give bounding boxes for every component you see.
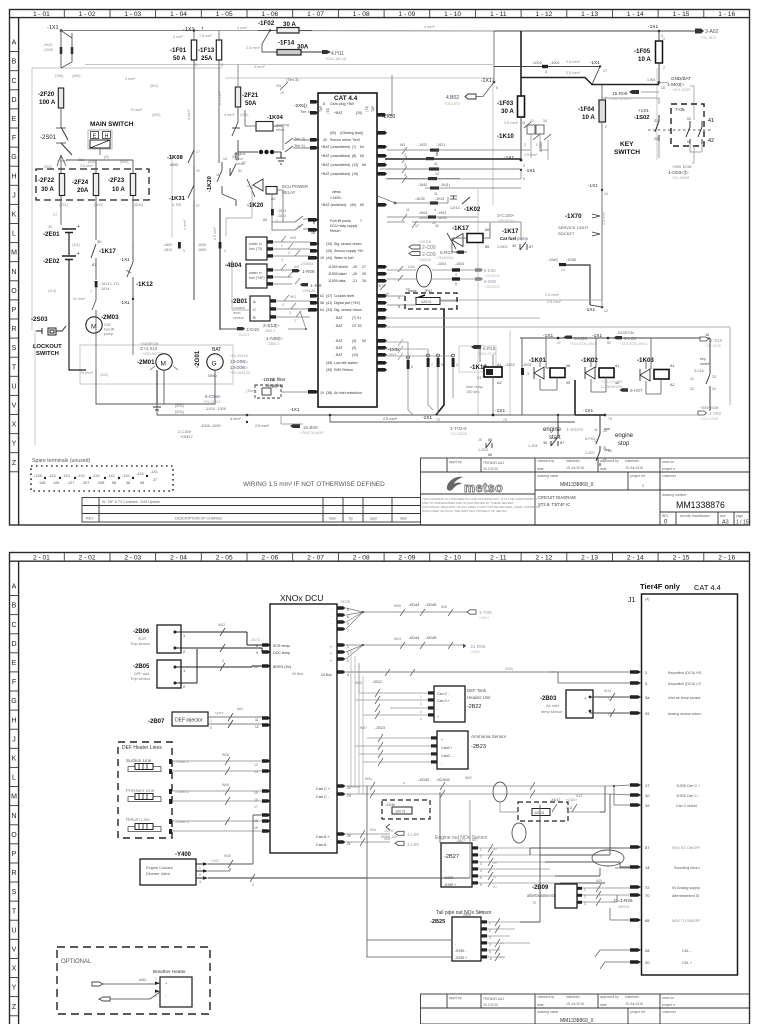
- svg-text:11: 11: [255, 718, 259, 722]
- svg-text:4: 4: [347, 673, 349, 677]
- svg-text:project ref: project ref: [630, 1010, 645, 1014]
- svg-text:27: 27: [362, 265, 366, 269]
- svg-text:CAT: CAT: [104, 323, 112, 327]
- svg-text:-1F04: -1F04: [578, 106, 595, 113]
- flag 4.H11: [322, 50, 331, 54]
- fuse -1F05 10A: [634, 24, 665, 82]
- svg-text:MM1338876: MM1338876: [676, 500, 725, 510]
- svg-text:13-G06▷: 13-G06▷: [230, 359, 249, 364]
- svg-text:stop: stop: [618, 441, 630, 447]
- svg-text:-2B01: -2B01: [231, 299, 248, 305]
- svg-text:Analog sensor return: Analog sensor return: [668, 712, 701, 716]
- svg-text:2 - 02: 2 - 02: [79, 555, 96, 562]
- ECU pin rows text: [320, 102, 366, 395]
- svg-text:A: A: [253, 299, 256, 304]
- svg-text:-2X88.B4: -2X88.B4: [300, 262, 314, 266]
- row to 1-Y05: [363, 611, 470, 613]
- svg-text:-2B23: -2B23: [375, 726, 385, 730]
- svg-text:checked by: checked by: [537, 459, 554, 463]
- svg-text:Header Unit: Header Unit: [467, 695, 491, 700]
- svg-text:J1939 shield: J1939 shield: [328, 265, 348, 269]
- svg-text:-XD73: -XD73: [250, 638, 260, 642]
- svg-text:H: H: [11, 717, 16, 724]
- svg-text:Water in fuel: Water in fuel: [334, 256, 354, 260]
- svg-text:1: 1: [480, 848, 482, 852]
- svg-text:7-05: 7-05: [675, 107, 685, 113]
- svg-text:(500): (500): [94, 203, 104, 207]
- svg-text:Can A -: Can A -: [316, 843, 329, 847]
- svg-text:aftertreatment1: aftertreatment1: [527, 893, 556, 898]
- svg-text:M: M: [161, 361, 166, 368]
- svg-text:5V Analog supply: 5V Analog supply: [672, 886, 700, 890]
- svg-text:Dig. sensor return: Dig. sensor return: [334, 308, 362, 312]
- ECU block CAT 4.4: [318, 93, 377, 407]
- svg-text:2.5 mm²: 2.5 mm²: [545, 293, 560, 297]
- svg-text:Can C -: Can C -: [316, 795, 330, 799]
- svg-text:2: 2: [288, 251, 290, 255]
- svg-text:W04: W04: [394, 637, 401, 641]
- svg-text:date: date: [400, 517, 407, 521]
- svg-text:CAT 4.4: CAT 4.4: [694, 583, 721, 592]
- svg-text:-2B23: -2B23: [471, 744, 486, 750]
- -4B04 pins and wires: [267, 236, 322, 293]
- svg-text:21: 21: [603, 446, 607, 450]
- battery -2E01: [43, 224, 80, 255]
- svg-text:2: 2: [252, 883, 254, 887]
- svg-text:1-L09: 1-L09: [407, 832, 419, 837]
- svg-text:(9): (9): [352, 346, 356, 350]
- svg-text:-1813: -1813: [100, 282, 109, 286]
- svg-text:-2X5(): -2X5(): [294, 103, 307, 108]
- svg-text:V1: V1: [477, 376, 481, 380]
- junction 1W4 y82: [521, 78, 665, 91]
- svg-text:05: 05: [566, 381, 570, 385]
- svg-text:J1939 +: J1939 +: [444, 883, 456, 887]
- svg-text:+BAT (unswitched): +BAT (unswitched): [321, 145, 350, 149]
- svg-text:approved by: approved by: [600, 995, 619, 999]
- flag 15.R09: [608, 90, 659, 101]
- svg-text:-1814: -1814: [100, 287, 109, 291]
- service socket -1X70: [558, 183, 608, 305]
- svg-text:34: 34: [543, 119, 547, 123]
- svg-text:water in: water in: [249, 271, 262, 275]
- svg-text:(Tier 3): (Tier 3): [286, 77, 299, 82]
- svg-text:7: 7: [360, 219, 362, 223]
- svg-text:2-C10⊳: 2-C10⊳: [178, 430, 192, 434]
- svg-text:3a: 3a: [645, 695, 650, 700]
- svg-text:-1K03: -1K03: [437, 216, 447, 220]
- svg-text:W05: W05: [355, 681, 362, 685]
- shield oval 2: [512, 823, 526, 843]
- svg-text:14: 14: [223, 157, 227, 161]
- svg-text:1-M02: 1-M02: [497, 245, 508, 249]
- svg-text:E: E: [93, 134, 97, 140]
- svg-text:2 - 09: 2 - 09: [398, 555, 415, 562]
- svg-text:-: -: [331, 621, 332, 625]
- svg-text:-1X70: -1X70: [565, 213, 582, 220]
- svg-text:-1K01: -1K01: [529, 357, 546, 364]
- svg-text:+: +: [330, 659, 332, 663]
- wire 4mm2 rail: [254, 25, 435, 69]
- svg-text:-1001: -1001: [550, 61, 560, 65]
- svg-text:ST2.8, T3/T4F IC: ST2.8, T3/T4F IC: [538, 502, 570, 507]
- svg-text:11: 11: [406, 208, 410, 212]
- svg-text:4.B02: 4.B02: [446, 95, 459, 101]
- svg-text:approved by: approved by: [600, 459, 619, 463]
- svg-text:temp sensor: temp sensor: [541, 709, 563, 714]
- terminal -1940 -1938: [547, 258, 608, 313]
- 120ohm resistor right: [500, 794, 600, 821]
- lockout switch -2S03: [31, 316, 66, 357]
- svg-text:38: 38: [126, 481, 130, 485]
- svg-text:25: 25: [362, 272, 366, 276]
- svg-text:Can C -: Can C -: [437, 692, 450, 696]
- page 2 letter column line: [18, 561, 20, 1024]
- svg-text:-1K12: -1K12: [136, 281, 153, 288]
- svg-text:4: 4: [434, 208, 436, 212]
- svg-text:1: 1: [183, 634, 185, 638]
- wires down from rows: [436, 150, 438, 156]
- svg-text:21: 21: [654, 119, 658, 123]
- svg-text:DEF Tank: DEF Tank: [467, 688, 487, 693]
- svg-text:2.5 mm²: 2.5 mm²: [524, 153, 538, 157]
- svg-text:9: 9: [523, 177, 525, 181]
- svg-text:N: N: [11, 813, 16, 820]
- svg-text:72: 72: [645, 885, 650, 890]
- svg-text:Tmp sensor: Tmp sensor: [130, 677, 151, 681]
- svg-text:W0x: W0x: [365, 777, 372, 781]
- valve -Y400: [140, 815, 470, 887]
- svg-text:W/8: W/8: [290, 236, 296, 240]
- svg-text:1 - 02: 1 - 02: [79, 11, 96, 18]
- svg-text:+OB-BH4E: +OB-BH4E: [484, 274, 500, 278]
- svg-text:+F4-1X24.1: +F4-1X24.1: [203, 400, 221, 404]
- 120ohm resistor left: [382, 800, 430, 830]
- svg-text:date: date: [600, 1003, 607, 1007]
- svg-text:1-O03: 1-O03: [478, 448, 488, 452]
- svg-text:17: 17: [645, 783, 650, 788]
- svg-text:2 - 08: 2 - 08: [353, 555, 370, 562]
- svg-text:15.B09: 15.B09: [303, 425, 318, 430]
- svg-text:A1: A1: [670, 364, 675, 368]
- svg-text:2: 2: [545, 70, 547, 74]
- svg-text:B: B: [398, 305, 401, 309]
- svg-text:Y: Y: [12, 985, 17, 992]
- svg-text:15.2.2010: 15.2.2010: [483, 1003, 498, 1007]
- svg-text:+OB3(T3)-M4E2: +OB3(T3)-M4E2: [300, 431, 324, 435]
- svg-text:-1F03: -1F03: [497, 100, 514, 107]
- svg-text:1 - 14: 1 - 14: [627, 11, 644, 18]
- svg-text:L: L: [12, 775, 16, 782]
- svg-text:(T3): (T3): [365, 106, 369, 112]
- svg-text:1-S10: 1-S10: [710, 338, 723, 343]
- svg-text:42: 42: [708, 138, 714, 144]
- svg-text:(16): (16): [352, 172, 358, 176]
- svg-text:SOCKET: SOCKET: [558, 231, 575, 236]
- relay coil -1K04: [245, 110, 289, 132]
- key switch small right: [690, 338, 716, 411]
- svg-text:41: 41: [615, 364, 619, 368]
- svg-text:1: 1: [155, 977, 157, 981]
- svg-text:1-E13: 1-E13: [450, 206, 460, 210]
- svg-text:53: 53: [362, 339, 366, 343]
- svg-text:3.Y02: 3.Y02: [709, 411, 721, 416]
- svg-text:23: 23: [712, 375, 716, 379]
- svg-text:A0x: A0x: [478, 910, 484, 914]
- svg-text:6-M03: 6-M03: [574, 336, 587, 341]
- svg-text:-: -: [331, 607, 332, 611]
- svg-text:I2t Bus: I2t Bus: [292, 672, 303, 676]
- svg-text:Digital pwr (+5V): Digital pwr (+5V): [334, 301, 360, 305]
- svg-text:Sensor return TierX: Sensor return TierX: [330, 138, 361, 142]
- svg-text:-21: -21: [352, 279, 357, 283]
- svg-text:1 - 09: 1 - 09: [398, 11, 415, 18]
- page 1 letter column line: [18, 18, 20, 525]
- svg-text:W06: W06: [394, 604, 401, 608]
- terminal -1K01/-1S08 marks: [60, 47, 74, 54]
- svg-text:ye: ye: [493, 875, 497, 879]
- svg-text:Return: Return: [330, 229, 341, 233]
- svg-text:11: 11: [594, 428, 598, 432]
- svg-text:30: 30: [435, 224, 439, 228]
- svg-text:J1939 +: J1939 +: [455, 956, 467, 960]
- svg-text:13-D09▷: 13-D09▷: [230, 365, 248, 370]
- terminal -1813 -1814 mid: [263, 209, 286, 223]
- fuse -1F01 50A: [170, 26, 213, 300]
- svg-text:P: P: [12, 851, 17, 858]
- svg-text:DEF injector: DEF injector: [175, 718, 203, 724]
- wire rows right of ECU: [387, 147, 530, 188]
- svg-text:19-Jul-2016: 19-Jul-2016: [566, 1002, 584, 1006]
- relay -1K17 coil: [447, 223, 490, 252]
- svg-text:-1F14: -1F14: [278, 40, 295, 47]
- svg-text:8: 8: [323, 102, 325, 106]
- svg-text:-2B06: -2B06: [133, 629, 150, 635]
- svg-text:J: J: [12, 736, 16, 743]
- svg-text:1-T02: 1-T02: [172, 203, 181, 207]
- flag 3-A02 top right: [695, 29, 719, 41]
- svg-text:87: 87: [560, 441, 564, 445]
- svg-text:30: 30: [297, 225, 301, 229]
- svg-text:2 - 06: 2 - 06: [261, 555, 278, 562]
- svg-text:-2B22: -2B22: [467, 704, 481, 710]
- svg-text:6: 6: [411, 365, 413, 369]
- svg-text:4 mm²: 4 mm²: [230, 417, 241, 421]
- svg-text:70 mm²: 70 mm²: [130, 108, 143, 112]
- svg-text:(20): (20): [356, 111, 362, 115]
- svg-text:1 - 04: 1 - 04: [170, 11, 187, 18]
- svg-text:1 - 16: 1 - 16: [718, 11, 735, 18]
- svg-text:3: 3: [420, 710, 422, 714]
- svg-text:Z: Z: [12, 460, 17, 467]
- svg-text:#W2: #W2: [170, 162, 179, 167]
- svg-text:GND/BAT: GND/BAT: [671, 76, 691, 81]
- svg-text:-2B01.2: -2B01.2: [268, 342, 279, 346]
- svg-text:17: 17: [603, 69, 607, 73]
- svg-text:Spare terminals (unused): Spare terminals (unused): [32, 458, 91, 464]
- svg-text:C: C: [253, 307, 256, 312]
- svg-text:customer: customer: [662, 1010, 677, 1014]
- svg-text:F: F: [12, 679, 16, 686]
- svg-text:-XD45: -XD45: [425, 602, 437, 607]
- svg-text:34: 34: [232, 155, 236, 159]
- svg-text:DCU POWER: DCU POWER: [282, 184, 308, 189]
- svg-text:Z: Z: [12, 1004, 17, 1011]
- svg-text:2.5 mm²: 2.5 mm²: [255, 424, 270, 428]
- return line heater: [126, 817, 262, 834]
- svg-text:Sensor supply +5V: Sensor supply +5V: [334, 249, 364, 253]
- svg-text:Keyswitch (DCU) HS: Keyswitch (DCU) HS: [668, 671, 702, 675]
- optional box: [57, 947, 210, 1014]
- svg-text:brn: brn: [493, 885, 498, 889]
- contact under 2F21: [232, 122, 240, 160]
- svg-text:LOAD/ECM: LOAD/ECM: [601, 384, 622, 389]
- svg-text:Keyswitch (DCU) LS: Keyswitch (DCU) LS: [668, 682, 701, 686]
- box -4B04 water in fuel T3: [163, 237, 267, 269]
- svg-text:KL T4F & T3 Constant - D28 Upd: KL T4F & T3 Constant - D28 Update: [102, 500, 160, 504]
- svg-text:+: +: [330, 645, 332, 649]
- svg-text:4 mm²: 4 mm²: [183, 219, 187, 230]
- svg-text:20: 20: [347, 834, 351, 838]
- ground main: [151, 370, 163, 410]
- svg-text:(10): (10): [352, 353, 358, 357]
- svg-text:+F4-1X24.5: +F4-1X24.5: [230, 354, 248, 358]
- svg-text:6-C05⊳: 6-C05⊳: [205, 394, 221, 399]
- svg-text:7: 7: [347, 629, 349, 633]
- svg-text:Air filter: Air filter: [270, 377, 286, 382]
- svg-text:(44): (44): [326, 256, 332, 260]
- svg-text:85: 85: [485, 245, 489, 249]
- svg-text:1: 1: [281, 244, 283, 248]
- svg-text:13: 13: [254, 763, 258, 767]
- svg-text:- BAT: - BAT: [334, 324, 344, 328]
- svg-text:(34): (34): [326, 308, 332, 312]
- svg-text:- BAT: - BAT: [334, 353, 344, 357]
- svg-text:W30: W30: [224, 854, 231, 858]
- svg-text:X: X: [12, 966, 17, 973]
- svg-text:W1: W1: [400, 143, 405, 147]
- svg-text:J1: J1: [628, 597, 636, 604]
- svg-text:2 - 11: 2 - 11: [490, 555, 507, 562]
- svg-text:engine: engine: [543, 427, 562, 433]
- svg-text:+BAT (unswitched): +BAT (unswitched): [321, 172, 350, 176]
- svg-text:-1X1: -1X1: [543, 333, 553, 339]
- svg-text:(50): (50): [330, 131, 336, 135]
- svg-text:brn: brn: [500, 955, 505, 959]
- svg-text:A: A: [12, 40, 17, 47]
- svg-text:4: 4: [420, 717, 422, 721]
- svg-text:2 - 14: 2 - 14: [627, 555, 644, 562]
- svg-text:3: 3: [222, 659, 224, 663]
- svg-text:U: U: [11, 927, 16, 934]
- svg-text:-1F05: -1F05: [634, 48, 651, 55]
- pressure line heater: [126, 783, 262, 809]
- svg-text:2: 2: [584, 895, 586, 899]
- svg-text:W5: W5: [276, 84, 281, 88]
- svg-text:-1X1: -1X1: [648, 24, 658, 30]
- svg-text:60: 60: [360, 203, 364, 207]
- svg-text:28: 28: [608, 713, 612, 717]
- svg-text:30 A: 30 A: [41, 186, 54, 193]
- svg-text:(40): (40): [350, 203, 356, 207]
- svg-text:64: 64: [360, 145, 364, 149]
- svg-text:-C2-D.1: -C2-D.1: [238, 333, 249, 337]
- svg-text:+BAT (unswitched): +BAT (unswitched): [321, 154, 350, 158]
- svg-text:(47): (47): [326, 294, 332, 298]
- svg-text:Air inlet: Air inlet: [546, 703, 560, 708]
- svg-text:+OD41B: +OD41B: [418, 240, 432, 244]
- row -1004 -1003 with flags: [432, 262, 500, 289]
- svg-text:-1S08: -1S08: [43, 48, 53, 52]
- svg-text:+24V ECM: +24V ECM: [700, 406, 718, 410]
- svg-text:22: 22: [690, 387, 694, 391]
- svg-text:date: date: [537, 1003, 544, 1007]
- svg-text:1: 1: [489, 922, 491, 926]
- svg-text:25A: 25A: [201, 55, 213, 62]
- svg-text:-1938: -1938: [566, 258, 576, 262]
- svg-text:CAT 4.4: CAT 4.4: [334, 95, 358, 102]
- svg-text:2: 2: [536, 143, 538, 147]
- svg-text:drawing name: drawing name: [537, 474, 558, 478]
- svg-text:1 - 07: 1 - 07: [307, 11, 324, 18]
- svg-text:2.5 mm²: 2.5 mm²: [246, 46, 261, 50]
- svg-text:5-E06: 5-E06: [484, 268, 496, 273]
- svg-text:3: 3: [281, 258, 283, 262]
- svg-text:(231): (231): [59, 203, 69, 207]
- svg-text:A2: A2: [670, 383, 675, 387]
- svg-text:-1814: -1814: [277, 214, 286, 218]
- svg-text:+: +: [330, 652, 332, 656]
- svg-text:2 - 10: 2 - 10: [444, 555, 461, 562]
- svg-text:Breather Heater: Breather Heater: [153, 969, 186, 974]
- fuse -2F24 20A: [72, 174, 99, 196]
- svg-text:(111): (111): [72, 243, 80, 247]
- svg-text:-1806: -1806: [197, 248, 206, 252]
- svg-text:2 - 13: 2 - 13: [581, 555, 598, 562]
- svg-text:J1939 Can C +: J1939 Can C +: [676, 784, 700, 788]
- svg-text:used on: used on: [662, 460, 674, 464]
- svg-text:15.2.2010: 15.2.2010: [483, 467, 498, 471]
- svg-text:date: date: [537, 467, 544, 471]
- svg-text:-1X1: -1X1: [120, 300, 130, 305]
- junction -1X1 y160: [504, 155, 535, 181]
- svg-text:9: 9: [523, 164, 525, 168]
- svg-text:-1K20: -1K20: [247, 203, 264, 209]
- svg-text:date: date: [329, 517, 336, 521]
- svg-text:19-Jul-2016: 19-Jul-2016: [625, 1002, 643, 1006]
- svg-text:21: 21: [690, 377, 694, 381]
- svg-text:3-A02: 3-A02: [705, 29, 719, 35]
- svg-text:project ref: project ref: [630, 474, 645, 478]
- engine stop: [585, 415, 634, 466]
- J1 pins: [630, 670, 641, 963]
- svg-text:1-R06: 1-R06: [302, 269, 315, 274]
- svg-text:17: 17: [196, 150, 200, 154]
- svg-text:-XD45: -XD45: [425, 635, 437, 640]
- contact -1K31: [169, 185, 200, 300]
- main switch -2S01: [40, 121, 134, 166]
- svg-text:(256): (256): [55, 74, 63, 78]
- svg-text:20A: 20A: [77, 187, 89, 194]
- svg-text:19-Jul-2016: 19-Jul-2016: [625, 466, 643, 470]
- svg-text:W02: W02: [465, 776, 472, 780]
- svg-text:-1X1: -1X1: [120, 257, 130, 262]
- svg-text:-26: -26: [352, 272, 357, 276]
- svg-text:Engine Coolant: Engine Coolant: [146, 865, 174, 870]
- svg-text:(8): (8): [352, 154, 356, 158]
- svg-text:-1K20: -1K20: [207, 176, 213, 192]
- svg-text:D: D: [11, 641, 16, 648]
